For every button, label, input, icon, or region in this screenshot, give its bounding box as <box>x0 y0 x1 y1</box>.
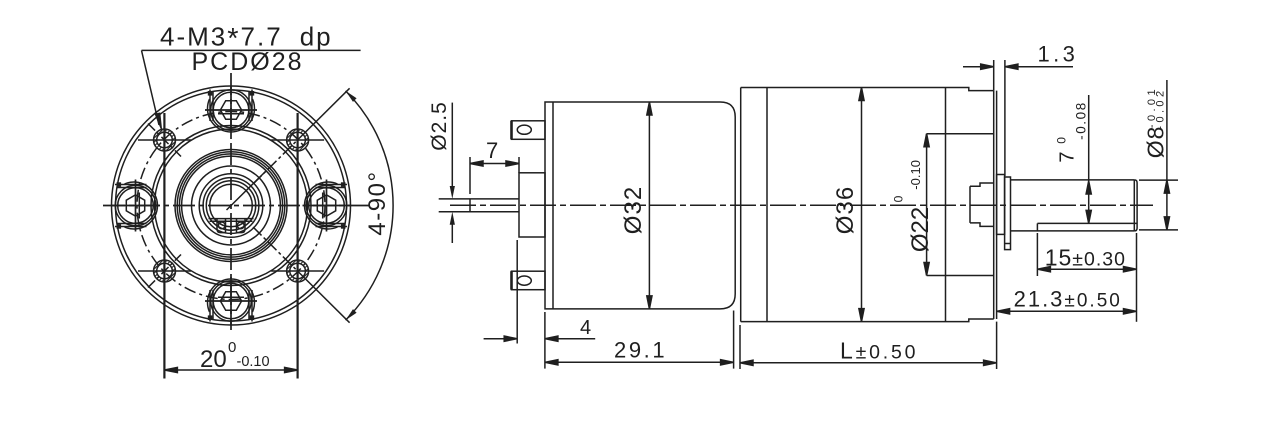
dim text 7 shaft (rotated) <box>1054 101 1088 162</box>
front view vertical centerline <box>230 73 232 330</box>
PCD bolt circle (dashed) <box>137 112 325 300</box>
svg-text:Ø22: Ø22 <box>907 207 934 252</box>
dim text phi8 (rotated) <box>1142 86 1168 158</box>
terminal tab bottom <box>512 271 546 290</box>
dim 1.3 extension lines <box>993 60 995 91</box>
ring gear circle b <box>177 152 285 260</box>
svg-text:-0.08: -0.08 <box>1073 101 1088 140</box>
svg-text:L±0.50: L±0.50 <box>840 338 918 364</box>
dim phi22 line <box>926 134 928 276</box>
dim 7 shaft line <box>1088 95 1090 223</box>
ring gear circle c <box>179 154 282 257</box>
rear shaft end cap <box>469 199 471 212</box>
dim 7 rear line <box>470 163 519 165</box>
dim 4 left arrow <box>484 338 518 340</box>
pilot boss bottom edge + dim extension <box>927 275 994 277</box>
motor body outline <box>545 102 735 309</box>
screw slot line <box>218 113 244 115</box>
svg-text:PCDØ28: PCDØ28 <box>192 48 304 76</box>
front face line <box>993 91 995 319</box>
svg-text:29.1: 29.1 <box>614 338 667 363</box>
hole centerline 45deg bottom-right <box>253 227 298 271</box>
gearbox front plate joint <box>945 88 947 322</box>
svg-text:7: 7 <box>1057 151 1079 162</box>
dim phi2.5 upper leader <box>451 103 453 187</box>
svg-text:-0.10: -0.10 <box>908 160 923 190</box>
gearbox outer circle <box>112 86 351 325</box>
hole centerline 45deg top-right <box>253 140 298 184</box>
hole radial leader top-right <box>298 88 350 140</box>
screw crosshair <box>205 109 257 111</box>
gearbox motor plate joint <box>766 88 768 322</box>
svg-text:4: 4 <box>580 317 591 339</box>
pilot boss circle inner <box>155 129 308 282</box>
dim 20 extension arrows <box>164 369 297 371</box>
label underline <box>142 49 361 51</box>
angle arc arrow bottom <box>346 309 357 320</box>
dim 1.3 right arrow <box>1005 66 1073 68</box>
terminal tab bottom hole <box>517 276 531 285</box>
output shaft top <box>1011 179 1135 181</box>
svg-text:0: 0 <box>1054 137 1068 144</box>
screw pocket wall right <box>251 90 253 122</box>
svg-text:-0.02: -0.02 <box>1155 88 1167 130</box>
clip left ear <box>217 219 226 233</box>
retaining clip outer circle <box>203 178 259 234</box>
dim phi2.5 lower leader <box>451 224 453 243</box>
output shaft inner circle <box>210 184 253 227</box>
bearing circle <box>199 174 263 238</box>
screw pocket arc <box>208 99 255 132</box>
M3 tapped hole bottom-left <box>138 252 191 289</box>
svg-text:4-90°: 4-90° <box>364 170 391 235</box>
rear shaft top <box>470 198 519 200</box>
svg-text:15±0.30: 15±0.30 <box>1045 245 1126 271</box>
gearbox body outline <box>741 88 994 322</box>
M3 tapped hole bottom-right <box>271 252 324 289</box>
pilot boss circle outer <box>151 126 311 286</box>
screw pocket wall left <box>209 90 211 122</box>
svg-text:7: 7 <box>486 138 498 163</box>
dim phi36 line <box>861 88 863 322</box>
angle dimension arc 4-90 <box>346 91 393 320</box>
svg-text:20: 20 <box>200 346 227 373</box>
ring gear circle d <box>182 156 281 255</box>
hole centerline top-left <box>148 124 181 157</box>
dim 21.3 line <box>997 310 1137 312</box>
svg-text:Ø36: Ø36 <box>832 186 859 234</box>
output shaft bottom <box>1011 230 1135 232</box>
svg-text:-0.10: -0.10 <box>237 354 270 370</box>
front face line 2 <box>996 91 998 319</box>
clip left ear hole <box>218 222 225 229</box>
screw assembly (defined at top position, reused rotated) <box>205 86 257 134</box>
svg-text:1.3: 1.3 <box>1038 42 1079 67</box>
dim 29.1 line <box>733 311 735 369</box>
dim 15 extension lines <box>1036 233 1038 276</box>
svg-text:0: 0 <box>892 195 906 202</box>
face flat line right / dim extension <box>297 113 299 379</box>
dim phi32 line <box>648 102 650 309</box>
label leader arrowhead <box>155 112 163 133</box>
dim L line <box>739 325 741 369</box>
terminal tab top hole <box>517 125 531 134</box>
radius construction line 45deg <box>227 171 267 210</box>
dim 4 right arrow <box>545 338 595 340</box>
bearing hub outline <box>970 183 994 226</box>
pilot boss top edge + dim extension <box>927 133 994 135</box>
label leader line <box>142 50 160 125</box>
svg-text:21.3±0.50: 21.3±0.50 <box>1014 287 1122 312</box>
rear shaft bottom <box>470 211 519 213</box>
shaft flat line <box>1037 222 1137 224</box>
carrier circle <box>192 166 271 245</box>
side view centerline <box>450 204 1153 206</box>
terminal tab top <box>512 121 546 140</box>
output shaft circle <box>206 181 255 230</box>
M3 tapped hole top-left <box>138 121 191 158</box>
screw hex socket <box>220 101 241 119</box>
ring gear circle a <box>175 150 287 262</box>
svg-text:Ø2.5: Ø2.5 <box>428 101 451 151</box>
screw pocket corner marks <box>208 91 213 96</box>
e-clip groove line <box>1005 243 1011 245</box>
hole centerline bottom-left <box>148 255 181 288</box>
screw head outer circle <box>211 90 252 131</box>
M3 tapped hole top-right <box>271 121 324 158</box>
output shaft end face <box>1134 180 1137 231</box>
svg-text:Ø32: Ø32 <box>620 186 647 234</box>
dim phi8 line <box>1166 80 1168 230</box>
rear boss <box>519 173 545 237</box>
clip flat chord <box>209 218 254 220</box>
dim phi2.5 extension lines <box>439 198 470 200</box>
shaft flat start edge <box>1036 223 1038 231</box>
dim text phi22 (rotated) <box>892 160 935 252</box>
screw head inner circle <box>213 92 249 128</box>
shaft base ring / e-clip <box>1005 177 1011 250</box>
gearbox outer circle inner line <box>116 90 347 321</box>
svg-text:0: 0 <box>228 339 236 356</box>
clip right ear <box>237 219 246 233</box>
clip right ear hole <box>237 222 244 229</box>
dim phi8 extension lines <box>1139 179 1178 181</box>
motor endcap line <box>552 102 554 309</box>
dim 1.3 left arrow <box>963 66 994 68</box>
shaft washer <box>997 175 1005 235</box>
dim 15 line <box>1037 268 1136 270</box>
angle arc arrow top <box>346 91 357 102</box>
hole radial leader bottom-right <box>298 271 350 323</box>
front view horizontal centerline <box>103 205 370 207</box>
dim 7 rear extension lines <box>469 157 471 194</box>
dim 4 extension lines <box>516 240 518 344</box>
face flat line left / dim extension <box>163 113 165 379</box>
